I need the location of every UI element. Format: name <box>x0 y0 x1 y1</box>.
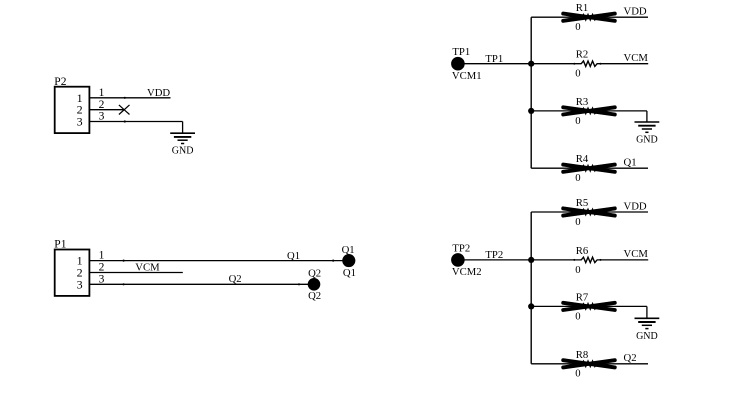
wire net Q1 row (R4) <box>531 167 648 169</box>
svg-text:VDD: VDD <box>147 87 170 99</box>
junction R7 row <box>528 303 534 309</box>
test point Q1 <box>342 254 355 267</box>
resistor R8 <box>563 360 615 367</box>
connector P2 <box>54 76 89 133</box>
svg-text:Q1: Q1 <box>343 267 356 279</box>
svg-text:0: 0 <box>575 368 580 380</box>
no-connect X on P2 pin 2 <box>119 105 130 115</box>
bus wire TP1 network <box>530 17 532 168</box>
svg-text:VCM: VCM <box>135 261 160 273</box>
svg-text:3: 3 <box>99 111 105 123</box>
svg-text:3: 3 <box>77 277 83 291</box>
wire TP1 to bus <box>458 63 531 65</box>
svg-text:R6: R6 <box>576 245 589 257</box>
connector P1 <box>54 239 89 296</box>
wire P1 pin 2 net VCM <box>89 272 182 274</box>
junction TP2/R6 row <box>528 257 534 263</box>
svg-text:VCM: VCM <box>624 52 649 64</box>
wire net VCM row (R6) <box>531 259 648 261</box>
svg-text:2: 2 <box>99 262 105 274</box>
wire net VCM row (R2) <box>531 63 648 65</box>
wire P2 pin 1 to VDD <box>89 97 170 99</box>
wire R7 to ground <box>646 306 648 318</box>
junction P1 pin 3 <box>123 283 125 285</box>
svg-text:R3: R3 <box>576 96 588 108</box>
svg-text:Q1: Q1 <box>342 244 355 256</box>
junction P2 pin 1 <box>124 97 126 99</box>
resistor R3 <box>563 107 615 114</box>
resistor R7 <box>563 303 615 310</box>
wire P1 pin 3 net Q2 <box>89 283 314 285</box>
svg-text:Q2: Q2 <box>308 290 321 302</box>
svg-text:0: 0 <box>575 21 580 33</box>
resistor R5 <box>563 208 615 215</box>
svg-text:2: 2 <box>99 99 105 111</box>
svg-text:Q1: Q1 <box>287 250 300 262</box>
ground GND (P2) <box>170 133 195 157</box>
junction net Q1 <box>332 260 334 262</box>
test point TP2 <box>451 253 465 267</box>
svg-text:GND: GND <box>636 135 658 146</box>
svg-text:0: 0 <box>575 264 580 276</box>
wire net VDD row (R1) <box>531 16 648 18</box>
junction P2 pin 3 <box>124 120 126 122</box>
svg-text:R5: R5 <box>576 197 588 209</box>
svg-text:GND: GND <box>172 146 194 157</box>
junction TP1/R2 row <box>528 61 534 67</box>
wire P2 pin 2 <box>89 109 124 111</box>
wire P2 pin 3 to GND <box>89 122 182 134</box>
svg-text:0: 0 <box>575 310 580 322</box>
svg-text:1: 1 <box>99 250 105 262</box>
svg-text:1: 1 <box>99 87 105 99</box>
junction P1 pin 1 <box>123 260 125 262</box>
svg-text:3: 3 <box>77 115 83 129</box>
svg-text:TP2: TP2 <box>452 242 470 254</box>
resistor R6 <box>573 257 601 262</box>
wire net VDD row (R5) <box>531 211 648 213</box>
svg-text:VDD: VDD <box>624 6 647 18</box>
svg-text:Q2: Q2 <box>624 352 637 364</box>
svg-text:VDD: VDD <box>624 200 647 212</box>
ground GND (R3) <box>635 122 660 146</box>
resistor R2 <box>573 61 601 66</box>
svg-text:R1: R1 <box>576 2 588 14</box>
svg-text:TP1: TP1 <box>485 53 503 65</box>
svg-text:R8: R8 <box>576 349 588 361</box>
test point TP1 <box>451 57 465 71</box>
svg-text:Q2: Q2 <box>308 267 321 279</box>
bus wire TP2 network <box>530 212 532 364</box>
svg-text:0: 0 <box>575 68 580 80</box>
svg-text:VCM2: VCM2 <box>452 266 482 278</box>
svg-text:R2: R2 <box>576 49 588 61</box>
svg-text:Q1: Q1 <box>624 157 637 169</box>
wire net Q2 row (R8) <box>531 363 648 365</box>
svg-text:VCM1: VCM1 <box>452 70 482 82</box>
junction R3 row <box>528 108 534 114</box>
svg-text:VCM: VCM <box>624 248 649 260</box>
svg-text:R7: R7 <box>576 291 589 303</box>
svg-text:0: 0 <box>575 216 580 228</box>
wire R3 to ground <box>646 111 648 122</box>
resistor R4 <box>563 165 615 172</box>
ground GND (R7) <box>635 318 660 342</box>
svg-text:TP2: TP2 <box>485 249 503 261</box>
wire net row (R7) <box>531 305 647 307</box>
svg-text:GND: GND <box>636 331 658 342</box>
svg-text:0: 0 <box>575 172 580 184</box>
junction net Q2 <box>298 283 300 285</box>
svg-text:Q2: Q2 <box>229 273 242 285</box>
wire TP2 to bus <box>458 259 531 261</box>
svg-text:0: 0 <box>575 115 580 127</box>
wire net row (R3) <box>531 110 647 112</box>
svg-text:3: 3 <box>99 273 105 285</box>
resistor R1 <box>563 14 615 21</box>
svg-text:TP1: TP1 <box>452 46 470 58</box>
svg-text:R4: R4 <box>576 153 589 165</box>
test point Q2 <box>308 278 321 291</box>
wire P1 pin 1 net Q1 <box>89 260 348 262</box>
